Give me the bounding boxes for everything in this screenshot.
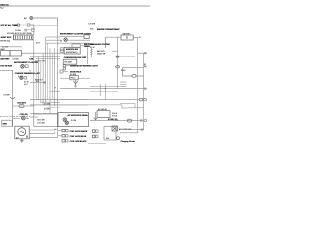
wire h78 left: [60, 77, 70, 79]
svg-text:CHARGE/GAUGE UNIT: CHARGE/GAUGE UNIT: [64, 56, 87, 59]
wire main h88 right: [90, 88, 147, 90]
lamp L5 circle-X: [63, 118, 66, 121]
svg-text:12: 12: [60, 41, 62, 43]
lamp L2 circle-X: [21, 116, 25, 120]
svg-text:0.5 L: 0.5 L: [36, 81, 40, 83]
svg-text:0.5 G/B: 0.5 G/B: [44, 109, 49, 111]
wire main h105: [30, 104, 88, 106]
wire bus vertical right A: [117, 37, 119, 88]
wire main h56: [30, 55, 60, 57]
svg-text:12 0.5 G/B: 12 0.5 G/B: [37, 122, 45, 124]
wire corner x105: [106, 37, 121, 48]
splice S1 arrow: [10, 97, 15, 99]
wire main h120: [90, 120, 144, 122]
wire stub h82: [120, 81, 127, 83]
wire h71: [63, 71, 68, 73]
svg-text:0.5 W/B: 0.5 W/B: [4, 95, 11, 97]
wire faint h56 right: [120, 56, 135, 58]
svg-text:G: G: [55, 88, 57, 90]
ground symbol under alternator: [20, 139, 24, 142]
wire h107 right: [128, 107, 144, 109]
wire bus vertical 1: [33, 40, 35, 114]
svg-text:Fig. 7: Fig. 7: [0, 7, 4, 9]
wire bus vertical 8: [49, 48, 51, 114]
wire main h58: [36, 58, 60, 60]
connector C113 oval: [132, 75, 136, 78]
wire branch h90: [50, 90, 60, 92]
wire main h86 right: [90, 86, 120, 88]
fuse F1 box: [27, 24, 30, 26]
ignition switch U2 box: [64, 47, 80, 54]
wire fuse to bus: [30, 25, 34, 35]
wire relay to bus: [22, 52, 35, 54]
svg-text:0.5 W: 0.5 W: [90, 47, 95, 49]
connector C205 mark: [140, 119, 146, 121]
connector col2 row2 symbol: [92, 135, 98, 138]
svg-text:1.25 W/R: 1.25 W/R: [88, 24, 96, 26]
terminal T1 box: [60, 70, 63, 73]
node junction dot: [105, 88, 106, 89]
wire bus vertical right C: [143, 53, 145, 130]
wire faint h108: [46, 107, 60, 109]
wire dashes to fuse box: [20, 24, 27, 26]
svg-text:METER 10A: METER 10A: [0, 40, 10, 43]
wire faint h25 continue: [34, 25, 58, 27]
wire bus vertical right B: [137, 37, 139, 132]
footer short rule: [88, 143, 106, 145]
wire bus vertical 3: [38, 56, 40, 100]
svg-text:C113 2-PIN BLACK: C113 2-PIN BLACK: [70, 140, 88, 143]
svg-text:CHARGING SYSTEM: CHARGING SYSTEM: [90, 43, 110, 46]
wire gauge h40: [67, 39, 90, 41]
battery BT1 box: [121, 35, 133, 40]
connector C202 mark: [144, 64, 147, 67]
wire vertical x95: [95, 112, 97, 120]
gauge M1 box: [84, 35, 89, 39]
wire main h88 center: [60, 88, 90, 90]
wire alternator out h137: [29, 137, 57, 139]
svg-text:0.85 B: 0.85 B: [121, 70, 126, 72]
wire branch h82: [30, 82, 46, 84]
svg-text:0.5 W/L: 0.5 W/L: [15, 30, 21, 32]
relay K3 box: [97, 111, 110, 118]
splice S3 arrow symbol: [74, 80, 78, 87]
connector C206 mark: [140, 129, 143, 131]
svg-text:FIELD: FIELD: [71, 77, 77, 79]
wire branch h43: [46, 42, 62, 44]
wire stub: [0, 46, 22, 48]
wire faint h29 stub: [27, 29, 34, 31]
diode D2 box: [24, 76, 27, 79]
svg-text:GENERATOR WARNING LIGHT: GENERATOR WARNING LIGHT: [70, 65, 99, 68]
svg-text:0.5 L/B: 0.5 L/B: [112, 115, 117, 117]
svg-text:0.5 B/W: 0.5 B/W: [13, 58, 19, 60]
wire h46: [80, 45, 90, 47]
svg-text:B+: B+: [139, 37, 141, 39]
wire stub alternator: [13, 118, 20, 120]
svg-text:JOINT BOX: JOINT BOX: [0, 37, 11, 39]
lamp L3 circle-X: [64, 38, 67, 41]
svg-text:Charging Circuit: Charging Circuit: [121, 140, 135, 143]
wire bus vertical 7: [47, 43, 49, 99]
svg-text:0.5B: 0.5B: [30, 59, 34, 61]
label GENERATOR box: [2, 120, 12, 126]
connector col2 row1 symbol: [92, 130, 98, 133]
connector C201 mark: [144, 52, 147, 54]
wire bus vertical 4: [40, 62, 42, 102]
wire into C102 from left: [13, 105, 19, 107]
svg-text:GEN: GEN: [3, 123, 8, 125]
wire branch h40: [46, 39, 62, 41]
wire stub h86: [120, 85, 127, 87]
svg-text:0.85: 0.85: [90, 28, 93, 30]
wire branch h37: [46, 36, 60, 38]
connector row2 symbol: [62, 135, 68, 137]
svg-text:10 0.5 G/R: 10 0.5 G/R: [37, 119, 46, 121]
svg-text:L: L: [55, 132, 56, 134]
wire h65: [66, 64, 70, 66]
wire cluster h36: [60, 36, 84, 38]
splice arrow on x95: [94, 118, 98, 120]
svg-text:C101 20-PIN WHITE: C101 20-PIN WHITE: [70, 131, 88, 133]
wire vertical x87: [87, 48, 89, 65]
svg-text:0.5 G/W: 0.5 G/W: [44, 103, 50, 105]
svg-text:0.5 Y: 0.5 Y: [24, 84, 29, 86]
svg-text:A/T INDICATOR PANEL: A/T INDICATOR PANEL: [68, 114, 90, 117]
ground symbol G box: [104, 127, 116, 141]
wire from C102: [24, 105, 34, 107]
connector hatch box on bus: [32, 28, 35, 31]
svg-text:ALT: ALT: [16, 136, 19, 139]
wire main h132 right: [120, 132, 138, 134]
wire main h102: [40, 101, 60, 103]
svg-text:0.5 B/Y (A): 0.5 B/Y (A): [108, 118, 118, 121]
wire C113 to bus: [136, 75, 143, 77]
wire dashed ground run: [0, 116, 30, 118]
splice mark S0: [25, 29, 27, 31]
wire h103 right: [120, 104, 135, 108]
splice S2 mark: [44, 82, 46, 84]
connector tick on bus A upper: [116, 56, 120, 58]
ECU U4 box left half: [34, 114, 58, 127]
switch SW1 small box b: [60, 50, 63, 52]
svg-text:ALT: ALT: [24, 17, 28, 20]
svg-text:C102 14-PIN BLUE: C102 14-PIN BLUE: [70, 135, 87, 138]
connector C204 ovals: [139, 98, 146, 101]
svg-text:(RUN/START): (RUN/START): [66, 51, 78, 54]
wire h51: [112, 50, 118, 52]
svg-text:BATTERY: BATTERY: [0, 57, 10, 60]
connector P1 double circle: [30, 17, 33, 20]
svg-text:CHARGE WARNING LAMP: CHARGE WARNING LAMP: [15, 72, 41, 75]
svg-text:CABLE 8B: CABLE 8B: [97, 52, 106, 55]
wire main h53: [34, 52, 64, 54]
wire main h105 right: [88, 104, 122, 106]
wire main h129 right: [120, 129, 144, 131]
alternator G1 rotor circle: [18, 126, 26, 136]
wire row1 stub: [58, 130, 62, 132]
connector row3 symbol: [62, 140, 68, 142]
wire stub h84: [120, 83, 127, 85]
switch SW1 small box a: [60, 48, 63, 50]
wire corner down x122: [122, 68, 132, 76]
svg-text:INSTRUMENT CLUSTER: INSTRUMENT CLUSTER: [14, 62, 39, 64]
connector oval on bus A lower: [116, 66, 120, 68]
relay K2 box: [10, 51, 22, 56]
diode D1 box: [25, 65, 28, 68]
wire h78 right: [78, 77, 90, 79]
svg-text:B+: B+: [55, 129, 57, 131]
meter M2 box: [72, 44, 80, 47]
svg-text:0.5 L/R: 0.5 L/R: [112, 113, 118, 115]
fuse F1 circle: [17, 24, 19, 26]
wire bus vertical 11: [57, 25, 59, 138]
wire bus vertical 5: [42, 53, 44, 105]
svg-text:G1: G1: [144, 64, 146, 66]
title rule: [0, 5, 150, 7]
wire main h91 right: [90, 90, 118, 92]
svg-text:ILLUM: ILLUM: [71, 120, 77, 122]
alternator B+ stud: [26, 136, 28, 138]
svg-text:HOT IN RUN: HOT IN RUN: [0, 66, 12, 68]
wire row2 stub: [58, 135, 62, 137]
lamp L1b circle-X: [20, 76, 23, 79]
wire main h99 right: [88, 99, 139, 101]
wire jog to right edge: [138, 52, 144, 54]
connector C102 oval: [19, 104, 24, 107]
wire bus vertical 9: [51, 53, 53, 99]
wire bus vertical 2: [35, 62, 37, 100]
relay K1 box: [1, 51, 11, 56]
wire short h117: [30, 116, 38, 118]
wire main h99: [30, 99, 88, 101]
wire bus vertical 10: [54, 48, 56, 106]
connector oval on wire: [127, 119, 132, 122]
ECU U4 box right half: [58, 113, 89, 127]
wire corner x122 down: [122, 105, 128, 108]
connector row1 symbol: [62, 129, 68, 131]
lamp L1 circle-X: [21, 65, 25, 69]
alternator G1 box: [15, 126, 29, 139]
wire h67 right: [122, 67, 143, 69]
wire cluster left leg: [0, 70, 13, 127]
wire vertical x105: [104, 84, 106, 100]
resistor R2 box: [70, 75, 78, 79]
wire bus vertical 6: [44, 37, 46, 102]
svg-text:ENGINE COMPARTMENT: ENGINE COMPARTMENT: [97, 28, 120, 31]
svg-text:C101 (W): C101 (W): [20, 114, 28, 116]
lamp L4 small circles: [63, 65, 66, 70]
wire from P1 to node B: [33, 18, 58, 25]
wire battery to bus: [133, 36, 137, 38]
regulator U3 box: [63, 59, 77, 64]
ground lead hatch: [90, 48, 92, 57]
wire vertical x100: [99, 84, 101, 96]
svg-text:0.5 R: 0.5 R: [36, 43, 41, 45]
svg-text:1 2 3 4 5 6 7 8 9: 1 2 3 4 5 6 7 8 9: [35, 61, 45, 63]
wire main h113: [30, 113, 58, 115]
wire alternator out h133: [29, 133, 55, 135]
lamp L6 circle-X: [65, 121, 68, 124]
connector C203 mark: [143, 88, 146, 90]
wire alternator out h130: [29, 129, 55, 131]
svg-text:KIA: KIA: [106, 137, 110, 140]
ground circle: [117, 137, 120, 140]
lamp L7 square with X: [112, 126, 118, 131]
wire gauge h43: [62, 42, 90, 44]
fuse block J/B with pins: [14, 35, 34, 40]
svg-text:B+: B+: [27, 118, 29, 120]
svg-text:VOLTAGE: VOLTAGE: [64, 60, 73, 63]
